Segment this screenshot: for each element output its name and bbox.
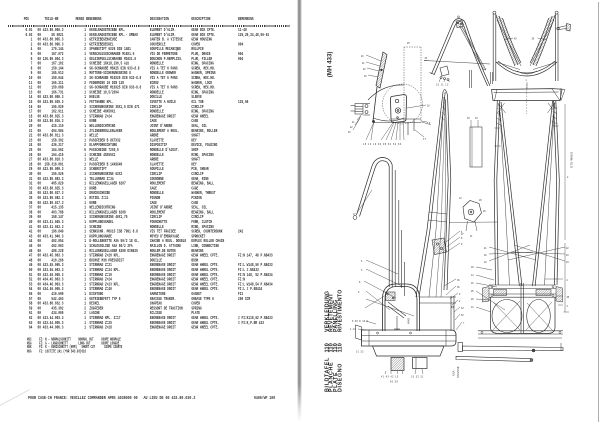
left assembly base frame [356,325,457,346]
svg-text:23: 23 [364,76,367,78]
top rail (right assembly) [492,80,566,114]
plate title vertical text: VERKLEIDUNG block [324,289,343,392]
svg-text:42: 42 [350,127,353,129]
left assembly arch block detail [386,292,411,330]
dimension leader line far right [565,104,569,240]
long horizontal leader [449,221,497,224]
svg-text:30: 30 [467,118,470,120]
left assembly left labels [350,190,414,331]
svg-text:41 43 42 15: 41 43 42 15 [381,377,399,379]
svg-text:35: 35 [457,287,460,289]
J-shaped handrail tube [353,158,395,288]
crossing leader lines [484,245,569,264]
svg-text:9: 9 [358,292,360,294]
svg-text:9: 9 [459,294,461,296]
svg-text:4 43: 4 43 [350,329,356,331]
right spike tip hatch [552,106,557,124]
svg-text:19: 19 [484,262,487,264]
knife bar leader labels 20-24 [361,55,381,78]
svg-text:34: 34 [475,118,478,120]
wheel arch box [483,283,563,333]
left assembly mast [399,200,405,296]
svg-text:40: 40 [514,39,517,41]
svg-text:41: 41 [352,122,355,124]
svg-text:21: 21 [484,248,487,250]
svg-text:21: 21 [362,63,365,65]
svg-text:2: 2 [567,177,569,179]
svg-text:27: 27 [461,234,464,236]
left assembly skids [373,346,445,371]
svg-text:NSC/NSK: NSC/NSK [456,366,460,378]
support bar 1 [458,343,563,353]
detail view: frame curves [368,85,421,135]
guard bow (top middle) [424,16,493,88]
labels 5 9 right of panel [415,121,431,141]
svg-text:(MH 433): (MH 433) [327,52,334,78]
detail view: pivot plate [391,95,407,123]
svg-text:22: 22 [363,69,366,71]
svg-text:9: 9 [461,244,463,246]
bow wear strip (hatched) [460,26,487,70]
svg-text:43: 43 [348,132,351,134]
left spike tip hatch [497,108,502,126]
svg-text:60 59: 60 59 [390,382,398,384]
svg-text:22: 22 [566,248,569,250]
svg-text:36: 36 [457,280,460,282]
pointed cone panel (centre) [416,90,451,297]
right labels column [545,243,570,312]
svg-text:2: 2 [459,301,461,303]
svg-text:2: 2 [567,280,569,282]
right assembly right spike [533,101,560,287]
base plate [478,331,563,338]
svg-text:24: 24 [566,262,569,264]
svg-text:33: 33 [461,315,464,317]
svg-text:11: 11 [470,236,473,238]
svg-text:33 32 31: 33 32 31 [411,377,424,379]
svg-text:8: 8 [359,282,361,284]
header rule (dotted) [8,25,290,27]
technical drawing [300,0,600,422]
svg-text:39: 39 [532,39,535,41]
svg-text:NSA: NSA [452,370,456,376]
bow apex clamp [456,20,463,28]
bottom-left scan shade [0,389,44,422]
funnel view (top right) [493,11,558,81]
footer sheet number [254,396,275,401]
svg-text:26: 26 [483,211,486,213]
parts table rows [22,28,273,330]
svg-text:13: 13 [471,307,474,309]
right assembly left spike [494,101,522,287]
left assembly platform lines [419,296,456,331]
svg-text:25: 25 [407,43,410,45]
svg-text:RIVESTIMENTO: RIVESTIMENTO [337,289,343,332]
svg-text:38: 38 [567,297,570,299]
centre fold shadow bar [297,0,302,422]
funnel labels 40 39 [504,38,546,41]
svg-text:14: 14 [471,275,474,277]
table header [22,17,254,22]
svg-text:23: 23 [566,255,569,257]
svg-text:12: 12 [459,198,462,200]
svg-text:15: 15 [425,58,428,60]
funnel mounting pin [557,24,571,32]
svg-text:1: 1 [526,80,528,82]
hex plate detail [459,198,486,238]
detail view: fan leader lines [366,122,404,141]
svg-text:5: 5 [361,261,363,263]
svg-text:3 7: 3 7 [423,139,427,141]
svg-text:DISEGNO: DISEGNO [337,363,343,392]
svg-text:18: 18 [471,267,474,269]
svg-text:18 13 19 90 98 81 82 83: 18 13 19 90 98 81 82 83 [363,144,402,146]
clamp labels 41-43 [348,114,362,134]
svg-text:6 39 D 40 K: 6 39 D 40 K [352,321,369,323]
left assembly door arch [383,284,420,331]
svg-text:7: 7 [463,323,465,325]
svg-text:3: 3 [361,270,363,272]
support bar 2 [456,356,533,361]
narrow strip detail [467,118,482,167]
svg-text:110: 110 [337,343,343,352]
label 16 with leader [407,105,430,108]
svg-text:29: 29 [471,299,474,301]
spike seam ticks [494,108,558,146]
svg-text:25: 25 [471,291,474,293]
svg-text:20: 20 [361,56,364,58]
svg-text:31 32: 31 32 [356,352,364,354]
wheel box left labels [471,267,505,312]
right page edge line [598,2,599,422]
svg-text:20: 20 [484,255,487,257]
svg-text:10 11 12: 10 11 12 [436,85,449,87]
svg-text:16: 16 [427,106,430,108]
footer order note [28,396,195,401]
svg-text:4X43: 4X43 [408,318,411,324]
svg-text:8: 8 [461,238,463,240]
spike tip cross braces [498,103,556,113]
cone bracket detail [432,231,463,255]
svg-text:34: 34 [461,308,464,310]
bow mounting bracket [424,58,450,87]
svg-text:28: 28 [479,200,482,202]
left assembly bottom labels [356,352,424,384]
detail view: phantom panel (dashed) [383,47,423,124]
left assembly right labels [444,279,465,330]
cone tip hatch [441,97,446,120]
detail view: clamp bolts [351,104,371,116]
svg-text:GTS 4860.0: GTS 4860.0 [570,151,574,168]
svg-text:16: 16 [471,283,474,285]
cutting-type notes block [27,338,122,354]
svg-text:3: 3 [567,306,569,308]
detail view: knife bar [372,52,387,123]
